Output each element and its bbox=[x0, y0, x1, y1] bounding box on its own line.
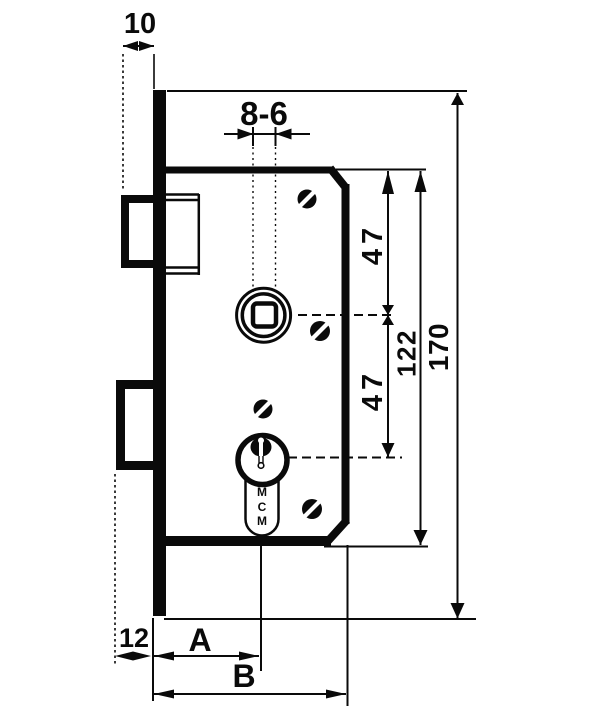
dim B: line and arrows bbox=[154, 690, 346, 699]
svg-text:47: 47 bbox=[357, 223, 389, 265]
dim A: line and arrows bbox=[154, 652, 259, 661]
dim 47 lower: label bbox=[357, 369, 389, 411]
svg-text:B: B bbox=[232, 658, 255, 694]
dim 10: arrows bbox=[123, 41, 154, 51]
dim A: label bbox=[188, 622, 211, 658]
svg-text:A: A bbox=[188, 622, 211, 658]
extension line spindle center (right) bbox=[298, 314, 396, 316]
extension line cylinder axis vertical bbox=[260, 546, 262, 671]
cylinder keyway bbox=[251, 438, 272, 469]
extension line faceplate top (right) bbox=[167, 90, 467, 92]
extension line faceplate bottom-left vertical bbox=[152, 618, 154, 701]
dim 8-6: label bbox=[240, 95, 288, 132]
extension line body top (right) bbox=[336, 169, 426, 171]
dim 47 upper: label bbox=[357, 223, 389, 265]
dim 12: extension line bbox=[114, 474, 116, 664]
dim 122: line and arrows bbox=[414, 171, 428, 545]
svg-text:C: C bbox=[258, 500, 267, 514]
deadbolt head bbox=[121, 385, 159, 466]
extension line body right vertical bbox=[347, 545, 349, 706]
dim 12: arrows bbox=[115, 652, 151, 661]
screw right of cylinder bbox=[302, 499, 322, 519]
cylinder circle bbox=[238, 436, 287, 485]
dim 8-6: arrows bbox=[224, 127, 310, 146]
svg-text:M: M bbox=[257, 485, 267, 499]
dim 47 lower: line and arrows bbox=[382, 315, 395, 457]
svg-text:10: 10 bbox=[124, 8, 156, 40]
latch bolt body bbox=[166, 194, 199, 275]
svg-text:47: 47 bbox=[357, 369, 389, 411]
svg-text:122: 122 bbox=[392, 329, 422, 377]
screw right of spindle bbox=[310, 321, 330, 341]
extension line cylinder center (right) bbox=[288, 457, 402, 459]
dim B: label bbox=[232, 658, 255, 694]
svg-text:M: M bbox=[257, 514, 267, 528]
dim 8-6: extension lines bbox=[253, 147, 276, 297]
dim 170: label bbox=[423, 323, 454, 371]
lock body outline bbox=[158, 168, 347, 541]
dim 10: extension lines bbox=[123, 54, 154, 190]
dim 47 upper: line and arrows bbox=[382, 171, 394, 315]
dim 170: line and arrows bbox=[451, 93, 465, 619]
latch bolt head bbox=[125, 199, 158, 264]
dim 122: label bbox=[392, 329, 422, 377]
extension line body bottom (right) bbox=[324, 546, 428, 548]
cylinder brand letters MCM bbox=[257, 485, 267, 528]
svg-text:12: 12 bbox=[119, 623, 149, 653]
svg-text:170: 170 bbox=[423, 323, 454, 371]
faceplate bbox=[153, 90, 166, 616]
svg-text:8-6: 8-6 bbox=[240, 95, 288, 132]
extension line faceplate bottom (right) bbox=[164, 618, 476, 620]
spindle follower bbox=[237, 288, 291, 342]
cylinder profile body bbox=[246, 476, 279, 536]
screw top bbox=[298, 190, 317, 209]
dim 12: label bbox=[119, 623, 149, 653]
screw above cylinder bbox=[254, 400, 273, 419]
dim 10: label bbox=[124, 8, 156, 40]
